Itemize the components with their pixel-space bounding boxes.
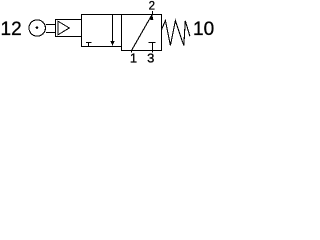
port 1 stub (bottom) — [131, 51, 133, 53]
port 3 stub (bottom) — [152, 51, 154, 53]
flow path 1->2 (diagonal arrow, right square) — [132, 15, 152, 50]
svg-text:10: 10 — [193, 19, 214, 40]
roller R (circle) — [29, 20, 45, 36]
svg-text:12: 12 — [1, 19, 22, 40]
svg-text:1: 1 — [130, 51, 137, 65]
blocked port T (right square, port 3) — [149, 43, 156, 51]
tappet stem (top and bottom lines between roller and actuator box) — [46, 25, 56, 33]
arrowhead up-right (diagonal, tip at top edge) — [149, 14, 154, 20]
flow path 2->3 (vertical passage, left square) — [112, 15, 114, 42]
arrowhead down (left square passage) — [110, 41, 114, 46]
plunger triangle (inside actuator box, pointing right) — [58, 21, 69, 35]
actuator box (mechanical operator housing) — [56, 20, 82, 37]
svg-text:3: 3 — [147, 51, 154, 65]
port 2 stub (top) — [152, 11, 154, 15]
valve body: right square (rest position) — [122, 15, 162, 51]
blocked port T (left square, port 1) — [86, 43, 92, 47]
return spring (zigzag, right side) — [162, 21, 190, 46]
svg-text:2: 2 — [149, 0, 155, 12]
valve body: left square (actuated position) — [82, 15, 122, 47]
roller pin (center dot) — [36, 26, 39, 29]
